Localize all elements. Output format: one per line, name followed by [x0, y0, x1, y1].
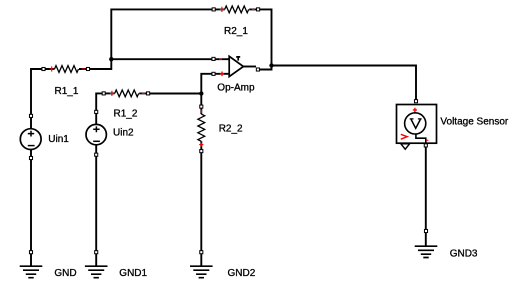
- svg-text:R2_1: R2_1: [224, 26, 248, 37]
- svg-text:GND2: GND2: [228, 268, 256, 279]
- ground GND: [20, 251, 43, 278]
- wire R1_2 left port down through Uin2 to GND1: [96, 93, 104, 266]
- svg-text:Uin1: Uin1: [48, 134, 69, 145]
- ground GND3: [415, 229, 438, 257]
- voltage source Uin1: [20, 114, 41, 159]
- resistor R2_2 (vertical, + at bottom): [198, 105, 205, 153]
- svg-text:Uin2: Uin2: [113, 127, 134, 138]
- wire R1_2 right port to junction B: [148, 93, 201, 95]
- voltage sensor U2: [397, 100, 437, 150]
- op-amp U1: [212, 56, 260, 76]
- wire junction B up to op-amp non-inverting input: [201, 74, 229, 94]
- wire R2_1 right port to vertical drop to output node: [258, 9, 271, 65]
- wire junction B down to R2_2 top port: [200, 94, 202, 107]
- voltage source Uin2: [86, 110, 106, 156]
- node A junction dot (feedback / inverting input): [109, 57, 113, 61]
- svg-text:Op-Amp: Op-Amp: [217, 82, 255, 93]
- ground GND2: [190, 251, 213, 278]
- ground GND1: [85, 251, 108, 278]
- wire R2_2 bottom port down to GND2: [200, 151, 202, 266]
- wire R1_1 left port down through Uin1 to GND: [31, 69, 44, 266]
- svg-text:GND1: GND1: [119, 268, 147, 279]
- wire op-amp output port jog up to output node: [258, 66, 272, 70]
- svg-text:R1_2: R1_2: [114, 108, 138, 119]
- svg-text:R1_1: R1_1: [55, 86, 79, 97]
- svg-text:R2_2: R2_2: [219, 123, 243, 134]
- svg-text:Voltage Sensor: Voltage Sensor: [440, 117, 508, 128]
- wire output node to voltage sensor top port: [272, 66, 417, 102]
- resistor R1_2: [102, 90, 150, 97]
- svg-text:GND: GND: [54, 268, 76, 279]
- node B junction dot (R1_2 / R2_2 / + input): [199, 91, 203, 95]
- wire voltage sensor bottom port down to GND3: [425, 145, 427, 246]
- resistor R1_1: [42, 66, 90, 73]
- resistor R2_1: [212, 6, 260, 13]
- wire top feedback loop: R1_1 right to junction, up to top rail, right to R2_1 left port: [88, 9, 214, 69]
- wire junction A to op-amp inverting input: [111, 58, 229, 60]
- node C junction dot (op-amp output): [269, 63, 273, 67]
- svg-text:GND3: GND3: [450, 249, 478, 260]
